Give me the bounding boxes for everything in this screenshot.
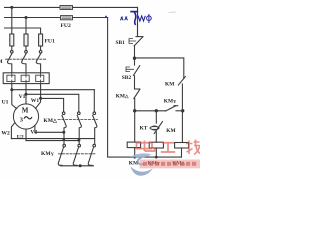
svg-text:KMY: KMY [164,98,177,104]
svg-text:U2: U2 [17,135,24,141]
contactor KM-delta pole2 circle [78,112,81,115]
contactor KM-Y pole1 blade [58,147,63,165]
watermark blue pen annotation top [105,12,151,25]
button SB2 slant [133,66,139,76]
contactor KM-Y pole1 circle [63,144,66,147]
wire line B V1 to c2 [26,94,79,111]
svg-text:W2: W2 [1,131,10,137]
wire V2 to c1 [35,131,64,133]
wire line A U1 to c3 [12,89,95,91]
wire KM-delta coil to bottom [181,148,183,157]
wire U1 below FR [12,84,17,109]
node dot V2-c1 [62,131,65,134]
wire fuse2 to switch [25,46,27,50]
coil KM [127,142,140,148]
coil KM-delta [175,143,189,149]
wire L1 to control corner [73,7,138,36]
wire L3 phase line [5,28,41,34]
contact KM NO slant [178,77,185,85]
svg-text:KM: KM [166,128,175,134]
svg-text:KM: KM [165,82,174,88]
bottom return line [135,156,182,158]
wire fuse3 to switch [40,46,42,50]
contactor KM-Y pole2 circle [78,144,81,147]
button SB1 lower terminal [134,46,136,58]
wire W2 from motor [11,123,15,139]
fuse FU1b [24,34,28,46]
wire KM-Y coil to bottom [155,148,157,157]
svg-text:KMY: KMY [41,151,55,157]
node dot KM bottom [133,156,136,159]
svg-text:V2: V2 [30,130,37,136]
coil KM-Y [149,142,163,148]
fuse FU2b [61,16,73,20]
node dot main-node [133,109,136,112]
button SB2 actuator E [126,67,134,72]
svg-text:KM△: KM△ [116,93,129,99]
contact KM-Y NC right wire [176,110,183,112]
FR element 2 [21,73,29,84]
node dot W2-c1 [63,138,66,141]
node dot L2-col2 [25,16,28,19]
contact KM-delta NC lower wire [134,99,136,111]
svg-text:M: M [22,107,29,115]
svg-text:KM: KM [129,161,138,167]
fuse FU1a [10,34,14,46]
contactor KM-Y pole2 blade [73,147,78,165]
wire node to KM coil [134,111,136,142]
wire W2 to c3 [11,138,94,140]
button SB1 slant [134,37,142,46]
button SB1 upper terminal [137,7,139,36]
contactor KM-Y pole3 blade [88,147,93,165]
wire KT branch upper [155,111,157,123]
switch KM pole1 circle [11,50,14,53]
button SB2 upper terminal [134,58,136,65]
motor M circle [13,104,38,129]
svg-text:W1: W1 [31,98,40,104]
contactor KM-delta pole3 blade [93,116,97,144]
svg-text:KM△: KM△ [43,118,58,124]
switch KM pole2 circle [25,50,28,53]
node dot W1 tap [39,97,42,100]
contact KM NO lower wire [181,84,183,111]
svg-text:KT: KT [140,126,148,132]
KM-Y linkage dashed [59,153,96,155]
contactor KM-delta pole1 blade [62,116,66,144]
watermark band text blobs [143,162,196,166]
node dot star point [79,164,82,167]
svg-text:FU2: FU2 [61,23,71,29]
node dot V1 tap [25,93,28,96]
svg-text:FU1: FU1 [45,39,55,45]
contactor KM-delta pole3 circle [93,112,96,115]
wire col2 drop [25,18,27,35]
latch branch wire [135,58,184,78]
switch KM pole3 circle [39,50,42,53]
svg-text:SB2: SB2 [122,75,132,81]
node dot KMY bottom [155,156,158,159]
contactor KM-delta pole2 blade [77,116,81,144]
watermark pink band [140,160,201,169]
wire fuse1 to switch [11,46,13,50]
wire L2 phase line [5,17,61,19]
wire W1 below FR [36,84,41,109]
contact KM-Y NC bar [174,105,178,107]
wire L2 to left rail [73,17,108,19]
contact KT slant [154,122,162,134]
node dot L1-col1 [10,6,13,9]
relay FR box [3,73,49,84]
wire right node to KM-delta coil [181,111,183,143]
watermark red chinese characters [137,140,201,155]
wire KM coil to bottom [134,148,136,158]
contactor KM-Y pole3 circle [93,144,96,147]
switch KM pole3 blade [36,53,41,73]
contact KT delay symbol [150,126,159,130]
wire V2 from motor [34,125,36,132]
switch KM pole2 blade [22,53,27,73]
button SB2 lower terminal [134,76,136,89]
node dot right-node [181,109,184,112]
KM-delta linkage dashed [58,119,98,121]
watermark blue swirl bottom [131,153,153,175]
wire U2 from motor [25,129,27,140]
FR element 3 [36,73,44,84]
svg-text:3: 3 [20,117,24,124]
node dot KT branch [155,109,158,112]
contact KM-delta NC bar [135,88,140,90]
FR element 1 [7,73,15,84]
switch KM pole1 blade [7,53,12,73]
contact KM-delta NC slant [134,89,140,98]
wire KT branch lower [155,132,157,142]
node dot U1 tap [10,88,13,91]
button SB1 NC bar [136,36,143,38]
node dot U2-c2 [77,139,80,142]
wire line A drop to c3 [93,90,95,112]
switch linkage dashed [6,58,47,60]
wire U2 to c2 [26,140,79,142]
wire L1 phase line [5,6,61,8]
svg-text:U1: U1 [2,100,9,106]
node line [135,110,166,112]
star point bar [61,165,94,167]
fuse FU1c [39,34,43,46]
contact KM-Y NC slant [166,106,176,111]
fuse FU2a [60,6,73,10]
wire V1 below FR [25,84,27,104]
contactor KM-delta pole1 circle [62,112,65,115]
svg-text:SB1: SB1 [116,40,126,46]
faint smudge [169,11,177,14]
wire col1 drop [11,7,13,34]
svg-text:M: M [0,59,3,65]
control left rail [108,18,135,158]
wire line C W1 to c1 [41,98,64,111]
node dot after SB1 [133,57,136,60]
svg-text:V1: V1 [19,94,26,100]
button SB1 actuator E [129,39,136,44]
